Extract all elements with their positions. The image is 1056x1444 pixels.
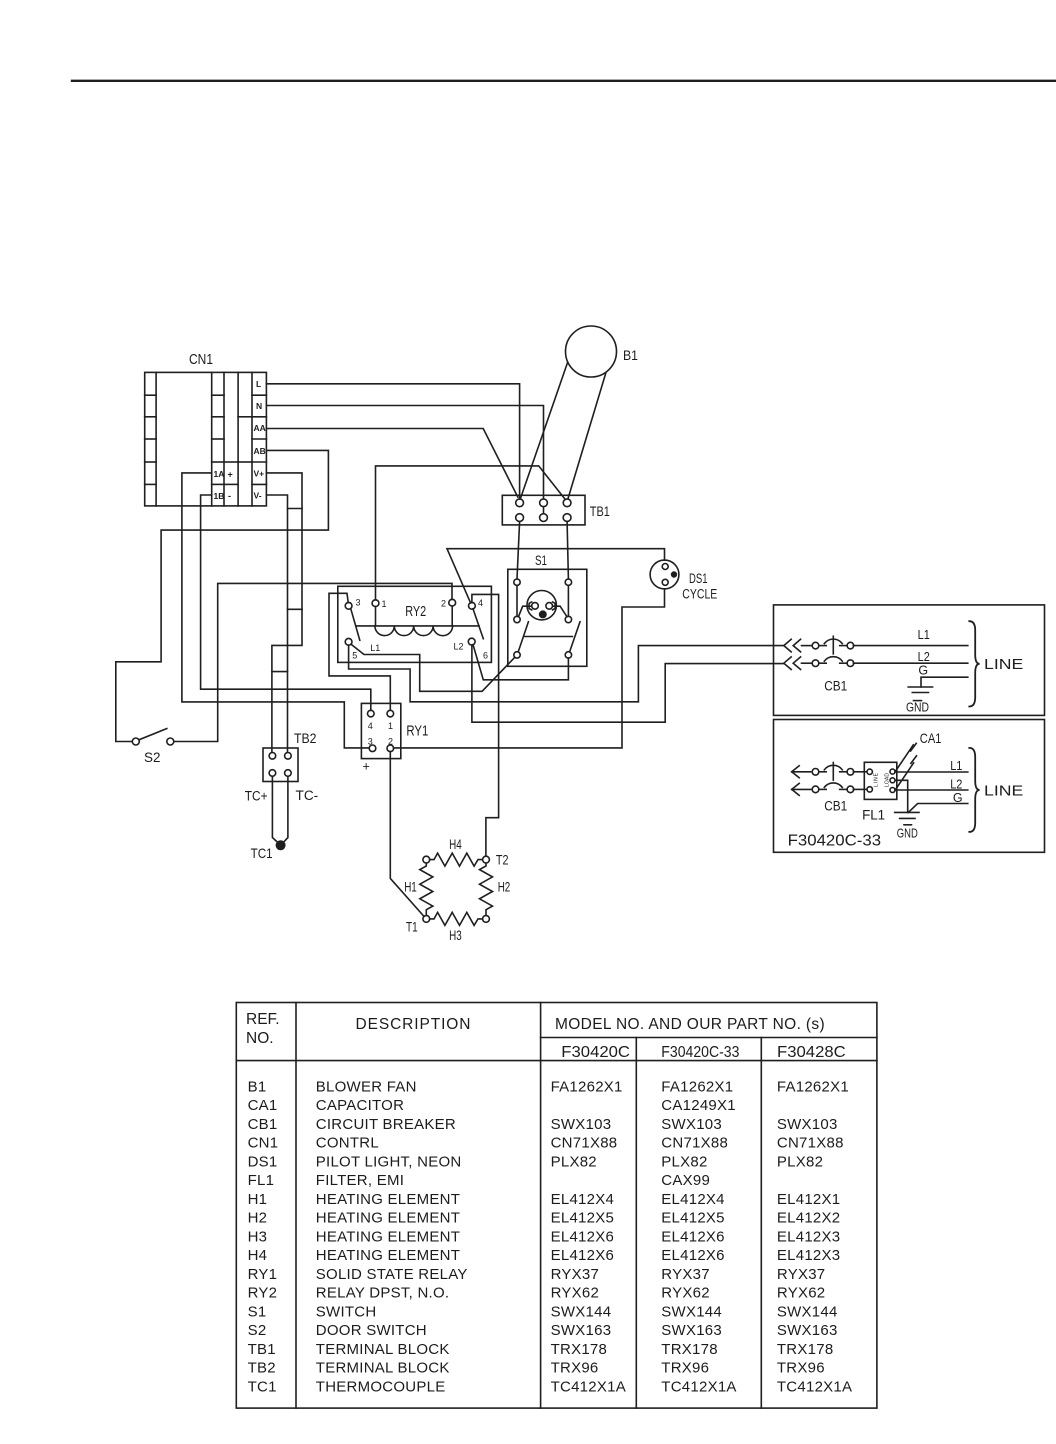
- blower fan B1: [566, 326, 617, 377]
- wire L1 line: [895, 771, 968, 773]
- svg-text:FA1262X1: FA1262X1: [551, 1078, 623, 1095]
- wire RY1-1 to RY2-3: [329, 593, 390, 710]
- circuit breaker CB1 pole 1: [812, 765, 854, 775]
- svg-text:G: G: [918, 664, 928, 678]
- wire 1B : CN1 to RY1-4: [201, 495, 371, 710]
- svg-text:B1: B1: [248, 1078, 267, 1095]
- wire AB : CN1 to door switch S2: [116, 450, 329, 741]
- svg-text:EL412X6: EL412X6: [551, 1228, 614, 1245]
- svg-text:CAPACITOR: CAPACITOR: [316, 1097, 404, 1114]
- svg-text:TC1: TC1: [248, 1378, 277, 1395]
- svg-text:L2: L2: [454, 642, 464, 652]
- wire DS1 top to RY2-4 blade corner: [447, 549, 665, 603]
- svg-text:FILTER, EMI: FILTER, EMI: [316, 1172, 404, 1189]
- svg-text:FA1262X1: FA1262X1: [777, 1078, 849, 1095]
- wire DS1 bottom to RY1-2: [394, 589, 665, 748]
- svg-text:EL412X5: EL412X5: [661, 1210, 724, 1227]
- heater node bottom-right: [483, 916, 490, 923]
- svg-text:CA1: CA1: [248, 1097, 278, 1114]
- svg-text:EL412X1: EL412X1: [777, 1191, 840, 1208]
- RY2 blade 3-5: [351, 609, 360, 641]
- svg-text:DOOR SWITCH: DOOR SWITCH: [316, 1322, 427, 1339]
- svg-text:4: 4: [368, 721, 373, 731]
- svg-text:RYX62: RYX62: [551, 1285, 600, 1302]
- svg-text:CN1: CN1: [248, 1135, 279, 1152]
- svg-text:EL412X6: EL412X6: [551, 1247, 614, 1264]
- wire S2 to RY2-2: [174, 583, 452, 741]
- svg-text:H3: H3: [449, 927, 462, 943]
- svg-text:H1: H1: [248, 1191, 268, 1208]
- svg-text:CYCLE: CYCLE: [682, 587, 717, 602]
- svg-text:+: +: [363, 760, 370, 774]
- control CN1 body: [145, 372, 267, 506]
- capacitor CA1 wire b: [896, 763, 914, 790]
- wire S1 bottom-right to RY2-6: [473, 645, 568, 680]
- svg-text:H4: H4: [248, 1247, 268, 1264]
- svg-text:H1: H1: [404, 879, 417, 895]
- svg-text:TC+: TC+: [245, 789, 268, 804]
- svg-text:TC412X1A: TC412X1A: [551, 1378, 626, 1395]
- heater node top-left: [423, 856, 430, 863]
- wire G line: [921, 677, 968, 687]
- wire jog rung b: [288, 608, 303, 610]
- wire V- : CN1 to TB2: [266, 495, 287, 752]
- RY2 blade 4-6: [473, 609, 483, 639]
- svg-text:TC412X1A: TC412X1A: [777, 1378, 852, 1395]
- solid state relay RY1: [361, 703, 400, 758]
- svg-text:LINE: LINE: [984, 784, 1024, 800]
- svg-text:S2: S2: [248, 1322, 267, 1339]
- svg-text:SWX163: SWX163: [777, 1322, 838, 1339]
- svg-text:TERMINAL BLOCK: TERMINAL BLOCK: [316, 1341, 450, 1358]
- wire V+ : CN1 to TB2: [266, 473, 302, 753]
- svg-text:FL1: FL1: [248, 1172, 275, 1189]
- svg-text:2: 2: [388, 737, 393, 747]
- wire FL1 mid pin to ground: [895, 780, 907, 812]
- svg-text:EL412X6: EL412X6: [661, 1247, 724, 1264]
- svg-text:LINE: LINE: [874, 772, 880, 787]
- svg-text:CN71X88: CN71X88: [777, 1135, 844, 1152]
- svg-text:T1: T1: [406, 919, 418, 935]
- svg-text:H3: H3: [248, 1228, 268, 1245]
- svg-text:T2: T2: [496, 852, 509, 868]
- svg-text:S2: S2: [144, 749, 161, 765]
- heating element H2: [480, 863, 493, 916]
- svg-text:CN71X88: CN71X88: [661, 1135, 728, 1152]
- door switch S2: [132, 729, 174, 745]
- svg-text:SOLID STATE RELAY: SOLID STATE RELAY: [316, 1266, 468, 1283]
- svg-text:THERMOCOUPLE: THERMOCOUPLE: [316, 1378, 446, 1395]
- chevron pair L1: [784, 639, 791, 652]
- wire RY2-5 down to line L1 feed: [349, 645, 784, 702]
- svg-text:RYX62: RYX62: [661, 1285, 710, 1302]
- brace: [969, 621, 979, 706]
- svg-text:DESCRIPTION: DESCRIPTION: [356, 1016, 472, 1033]
- svg-text:RYX37: RYX37: [551, 1266, 600, 1283]
- svg-text:SWX103: SWX103: [661, 1116, 722, 1133]
- svg-text:N: N: [256, 401, 262, 411]
- heater node T1: [423, 916, 430, 923]
- svg-text:HEATING ELEMENT: HEATING ELEMENT: [316, 1191, 460, 1208]
- line box F30420C variant: [774, 605, 1045, 716]
- svg-text:1: 1: [388, 721, 393, 731]
- svg-text:+: +: [228, 470, 233, 480]
- svg-text:TRX96: TRX96: [661, 1360, 709, 1377]
- svg-text:EL412X2: EL412X2: [777, 1210, 840, 1227]
- wire L : CN1 to TB1-1: [266, 384, 519, 499]
- svg-text:TRX178: TRX178: [661, 1341, 718, 1358]
- svg-text:RY2: RY2: [405, 604, 426, 620]
- svg-text:F30428C: F30428C: [777, 1044, 846, 1061]
- svg-text:SWITCH: SWITCH: [316, 1303, 377, 1320]
- svg-text:CN71X88: CN71X88: [551, 1135, 618, 1152]
- svg-text:CA1: CA1: [920, 730, 942, 746]
- svg-text:F30420C-33: F30420C-33: [661, 1044, 739, 1061]
- svg-text:HEATING ELEMENT: HEATING ELEMENT: [316, 1228, 460, 1245]
- svg-text:H2: H2: [248, 1210, 268, 1227]
- svg-text:TB1: TB1: [590, 504, 610, 519]
- switch S1: [508, 569, 587, 666]
- arrow L2: [792, 783, 811, 795]
- svg-text:TRX178: TRX178: [777, 1341, 834, 1358]
- parts table frame: [236, 1003, 877, 1409]
- svg-text:F30420C: F30420C: [561, 1044, 630, 1061]
- svg-text:BLOWER FAN: BLOWER FAN: [316, 1078, 417, 1095]
- wire AA : CN1 to TB1-1: [266, 429, 517, 498]
- svg-text:LINE: LINE: [984, 657, 1024, 673]
- wire RY2-5 to S1 bottom-left: [351, 644, 514, 691]
- svg-text:1A: 1A: [214, 469, 225, 479]
- wire L2 line: [895, 789, 968, 791]
- svg-text:CB1: CB1: [248, 1116, 278, 1133]
- CA1 plate a: [911, 743, 917, 751]
- wire TB2 left to TC1: [272, 776, 280, 844]
- svg-text:PLX82: PLX82: [661, 1153, 707, 1170]
- svg-text:L: L: [256, 379, 261, 389]
- svg-text:2: 2: [441, 599, 446, 609]
- wire CB1 to FL1 row 1: [853, 771, 866, 773]
- svg-text:NO.: NO.: [246, 1030, 274, 1047]
- svg-text:GND: GND: [906, 701, 929, 715]
- wire jog rung c: [272, 671, 288, 673]
- svg-text:TC412X1A: TC412X1A: [661, 1378, 736, 1395]
- wire G line: [908, 804, 967, 813]
- wire RY2-4 to heater node T2: [472, 594, 499, 856]
- svg-text:6: 6: [483, 651, 488, 661]
- svg-text:TC-: TC-: [296, 788, 319, 803]
- svg-text:RELAY DPST, N.O.: RELAY DPST, N.O.: [316, 1285, 450, 1302]
- arrow L1: [792, 766, 811, 778]
- svg-text:EL412X4: EL412X4: [551, 1191, 614, 1208]
- CB1 trip link: [832, 763, 834, 781]
- svg-text:H2: H2: [498, 879, 511, 895]
- capacitor CA1 wire a: [896, 745, 913, 771]
- svg-text:PLX82: PLX82: [777, 1153, 823, 1170]
- chevron pair L2: [784, 657, 791, 670]
- svg-text:PLX82: PLX82: [551, 1153, 597, 1170]
- svg-text:RY2: RY2: [248, 1285, 278, 1302]
- svg-text:SWX144: SWX144: [551, 1303, 612, 1320]
- svg-text:EL412X5: EL412X5: [551, 1210, 614, 1227]
- svg-text:MODEL NO. AND OUR PART NO. (s): MODEL NO. AND OUR PART NO. (s): [555, 1016, 825, 1033]
- wire TB2 right to TC1: [281, 776, 288, 844]
- wire 1A : CN1 to RY1-3 and line L1: [182, 473, 369, 748]
- svg-text:4: 4: [478, 598, 483, 608]
- svg-text:F30420C-33: F30420C-33: [788, 833, 882, 850]
- brace: [969, 748, 979, 832]
- svg-text:FL1: FL1: [862, 808, 885, 823]
- svg-text:CB1: CB1: [824, 679, 847, 694]
- svg-text:S1: S1: [248, 1303, 267, 1320]
- svg-text:EL412X3: EL412X3: [777, 1247, 840, 1264]
- svg-text:V-: V-: [254, 491, 262, 501]
- svg-text:CIRCUIT BREAKER: CIRCUIT BREAKER: [316, 1116, 456, 1133]
- heater node T2: [483, 856, 490, 863]
- circuit breaker CB1 pole 2: [812, 783, 854, 793]
- terminal block TB2: [263, 748, 298, 782]
- circuit breaker CB1 pole 1: [802, 639, 854, 649]
- wire B1 to TB1-3: [568, 373, 606, 498]
- svg-text:TRX96: TRX96: [777, 1360, 825, 1377]
- CA1 plate b: [911, 756, 917, 764]
- wire RY1-2 to heater node T1: [390, 752, 424, 917]
- svg-text:L2: L2: [950, 778, 962, 792]
- wire RY2-6 down to line L2 feed: [472, 645, 783, 722]
- svg-text:SWX103: SWX103: [551, 1116, 612, 1133]
- svg-text:S1: S1: [535, 553, 547, 568]
- wire TB1-1 to S1 top-left: [517, 522, 520, 580]
- svg-text:3: 3: [368, 737, 373, 747]
- svg-text:CAX99: CAX99: [661, 1172, 710, 1189]
- wire RY2-1 to TB1-3: [376, 466, 566, 600]
- heating element H4: [430, 853, 483, 866]
- svg-text:L2: L2: [918, 650, 930, 664]
- wire CB1 to FL1 row 2: [853, 788, 866, 790]
- heating element H1: [420, 863, 433, 916]
- svg-text:CN1: CN1: [189, 352, 213, 368]
- wire B1 to TB1-1: [520, 362, 567, 498]
- pilot light DS1: [650, 560, 679, 589]
- svg-text:B1: B1: [623, 347, 638, 363]
- svg-text:PILOT LIGHT, NEON: PILOT LIGHT, NEON: [316, 1153, 462, 1170]
- svg-text:SWX163: SWX163: [551, 1322, 612, 1339]
- svg-text:DS1: DS1: [689, 571, 708, 586]
- RY2 coil: [356, 606, 479, 636]
- svg-text:REF.: REF.: [246, 1011, 280, 1028]
- wire jog rung a: [288, 508, 303, 510]
- svg-text:EL412X4: EL412X4: [661, 1191, 724, 1208]
- svg-text:EL412X3: EL412X3: [777, 1228, 840, 1245]
- svg-text:SWX103: SWX103: [777, 1116, 838, 1133]
- svg-text:EL412X6: EL412X6: [661, 1228, 724, 1245]
- ground symbol: [908, 687, 932, 701]
- svg-text:H4: H4: [449, 836, 462, 852]
- thermocouple TC1: [276, 841, 284, 849]
- svg-text:L1: L1: [918, 628, 930, 642]
- svg-text:HEATING ELEMENT: HEATING ELEMENT: [316, 1247, 460, 1264]
- svg-text:TB1: TB1: [248, 1341, 276, 1358]
- svg-text:L1: L1: [950, 759, 962, 773]
- circuit breaker CB1 pole 2: [802, 657, 854, 667]
- svg-text:HEATING ELEMENT: HEATING ELEMENT: [316, 1210, 460, 1227]
- line box F30420C-33 variant: [774, 720, 1045, 853]
- ground symbol: [895, 812, 919, 824]
- terminal block TB1: [502, 495, 585, 525]
- svg-text:1: 1: [382, 599, 387, 609]
- svg-text:V+: V+: [254, 469, 265, 479]
- CB1 trip link: [832, 636, 834, 654]
- svg-text:AA: AA: [254, 423, 266, 433]
- svg-text:RYX37: RYX37: [661, 1266, 710, 1283]
- svg-text:DS1: DS1: [248, 1153, 278, 1170]
- svg-text:GND: GND: [897, 827, 918, 841]
- svg-text:RYX62: RYX62: [777, 1285, 826, 1302]
- EMI filter FL1: [864, 762, 897, 799]
- wire N : CN1 to TB1-2: [266, 406, 543, 499]
- svg-text:CONTRL: CONTRL: [316, 1135, 379, 1152]
- svg-text:CB1: CB1: [824, 799, 847, 814]
- relay RY2: [338, 586, 492, 662]
- svg-text:SWX144: SWX144: [777, 1303, 838, 1320]
- svg-text:TB2: TB2: [294, 730, 317, 746]
- svg-text:RYX37: RYX37: [777, 1266, 826, 1283]
- svg-text:L1: L1: [370, 643, 380, 653]
- svg-text:SWX163: SWX163: [661, 1322, 722, 1339]
- svg-text:SWX144: SWX144: [661, 1303, 722, 1320]
- svg-text:LOAD: LOAD: [885, 773, 891, 787]
- svg-text:TRX96: TRX96: [551, 1360, 599, 1377]
- svg-text:FA1262X1: FA1262X1: [661, 1078, 733, 1095]
- svg-text:5: 5: [352, 651, 357, 661]
- svg-text:RY1: RY1: [406, 724, 428, 740]
- svg-text:-: -: [228, 491, 231, 501]
- svg-text:TRX178: TRX178: [551, 1341, 608, 1358]
- svg-text:CA1249X1: CA1249X1: [661, 1097, 736, 1114]
- svg-text:RY1: RY1: [248, 1266, 278, 1283]
- svg-text:3: 3: [356, 598, 361, 608]
- wire L1 line: [853, 645, 967, 647]
- svg-text:TERMINAL BLOCK: TERMINAL BLOCK: [316, 1360, 450, 1377]
- svg-text:TB2: TB2: [248, 1360, 276, 1377]
- heating element H3: [430, 912, 483, 925]
- wire L2 line: [853, 662, 967, 664]
- svg-text:AB: AB: [254, 446, 266, 456]
- wire TB1-3 to S1 top-right: [567, 522, 568, 580]
- svg-text:TC1: TC1: [251, 845, 273, 861]
- svg-text:1B: 1B: [214, 491, 225, 501]
